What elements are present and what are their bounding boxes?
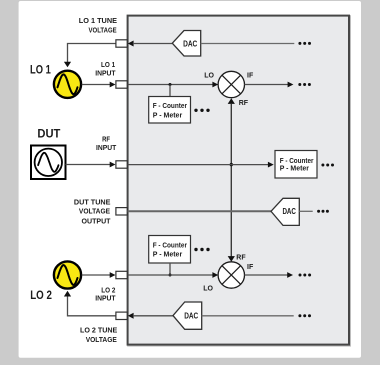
arrowhead RF down into mixer U4 [228, 256, 235, 262]
port LO2 input [116, 271, 127, 278]
svg-text:RF: RF [236, 255, 246, 262]
wire DAC1 output [201, 43, 295, 45]
arrowhead into LO1 input port [110, 82, 116, 88]
svg-text:DAC: DAC [282, 207, 296, 216]
instrument box [128, 16, 349, 345]
svg-text:INPUT: INPUT [95, 294, 116, 303]
F-Counter / P-Meter block 1 [149, 97, 191, 124]
ellipsis DAC1 output [298, 42, 301, 45]
mixer U2 (top) [218, 71, 244, 97]
port LO1 input [116, 81, 127, 88]
arrowhead down into LO1 [64, 62, 71, 67]
svg-text:DUT: DUT [37, 128, 60, 140]
wire RF vertical bus [230, 104, 232, 257]
svg-text:INPUT: INPUT [95, 68, 116, 77]
DAC U1 (top) [172, 31, 200, 57]
arrowhead IF output top [288, 82, 294, 88]
mixer U4 (bottom) [218, 262, 244, 288]
arrowhead into RF input port [110, 162, 116, 168]
wire LO1 input port to mixer U2 [128, 84, 213, 86]
svg-text:DUT TUNE: DUT TUNE [74, 197, 111, 206]
wire DAC3 output [202, 315, 294, 317]
junction node (LO1 branch to F-counter) [169, 83, 172, 86]
port LO1 tune voltage [116, 40, 127, 47]
svg-text:P - Meter: P - Meter [153, 250, 183, 259]
wire LO2 to input port [82, 274, 110, 276]
svg-text:VOLTAGE: VOLTAGE [79, 207, 110, 216]
arrowhead left into LO2 tune port [128, 313, 134, 319]
wire DAC1 to port [133, 43, 173, 45]
svg-text:LO 1 TUNE: LO 1 TUNE [79, 16, 117, 25]
port RF input [116, 161, 127, 168]
arrowhead RF up into mixer U2 [228, 98, 235, 104]
wire LO2 input port to mixer U4 [128, 274, 213, 276]
wire LO1 to input port [82, 84, 110, 86]
ellipsis F-Counter 2 [194, 248, 197, 251]
oscillator LO1 [54, 71, 81, 98]
ellipsis F-Counter 3 [321, 164, 324, 167]
wire mixer U2 IF output [245, 84, 289, 86]
wire branch F-Counter 2 down [169, 263, 171, 275]
svg-text:LO: LO [204, 73, 214, 80]
F-Counter / P-Meter block 3 [275, 151, 317, 179]
svg-text:LO 1: LO 1 [30, 65, 51, 77]
wire DAC3 to port [133, 315, 173, 317]
arrowhead into F-Counter 3 [268, 162, 274, 168]
arrowhead IF output bottom [287, 272, 293, 278]
wire DAC2 output [299, 210, 312, 212]
DAC U3 (middle) [271, 198, 299, 225]
arrowhead into mixer U4 LO [212, 272, 218, 278]
svg-text:VOLTAGE: VOLTAGE [86, 335, 117, 344]
svg-text:VOLTAGE: VOLTAGE [89, 25, 117, 34]
svg-text:IF: IF [247, 72, 254, 79]
wire LO2 tune voltage (port to LO2 bottom) [68, 297, 116, 316]
oscillator LO2 [54, 261, 81, 288]
wire RF input port to F-Counter 3 [128, 164, 269, 166]
DUT source symbol [31, 146, 66, 180]
ellipsis DAC3 [298, 314, 301, 317]
svg-text:DAC: DAC [184, 312, 198, 321]
ellipsis IF top [298, 83, 301, 86]
ellipsis F-Counter 1 [194, 109, 197, 112]
F-Counter / P-Meter block 2 [149, 236, 191, 264]
svg-text:IF: IF [247, 264, 254, 271]
junction node (LO2 branch) [169, 274, 172, 277]
DAC U5 (bottom) [173, 302, 202, 329]
ellipsis IF bottom [299, 274, 302, 277]
wire LO1 tune voltage (port to LO1 top) [68, 44, 116, 63]
wire mixer U4 IF output [245, 274, 288, 276]
wire DUT to RF input port [66, 164, 111, 166]
svg-text:P - Meter: P - Meter [280, 164, 309, 173]
svg-text:OUTPUT: OUTPUT [82, 217, 111, 226]
svg-text:LO 2: LO 2 [30, 290, 52, 302]
port LO2 tune voltage [116, 312, 127, 319]
arrowhead up into LO2 [64, 291, 71, 297]
wire DAC2 to DUT tune port [128, 210, 272, 212]
svg-text:P - Meter: P - Meter [153, 110, 183, 119]
arrowhead into LO2 input port [110, 272, 116, 278]
wire branch down to F-Counter 1 [169, 85, 171, 97]
svg-text:F - Counter: F - Counter [153, 240, 187, 249]
svg-text:DAC: DAC [183, 39, 197, 48]
svg-text:INPUT: INPUT [96, 143, 117, 152]
ellipsis DAC2 [317, 210, 320, 213]
arrowhead into mixer U2 LO [212, 82, 218, 88]
port DUT tune voltage output [116, 208, 127, 215]
arrowhead left into LO1 tune port [128, 41, 134, 47]
svg-text:LO: LO [203, 285, 213, 292]
junction node RF / vertical [230, 163, 233, 166]
svg-text:RF: RF [239, 100, 249, 107]
svg-text:LO 2 TUNE: LO 2 TUNE [80, 326, 117, 335]
svg-text:F - Counter: F - Counter [153, 101, 187, 110]
